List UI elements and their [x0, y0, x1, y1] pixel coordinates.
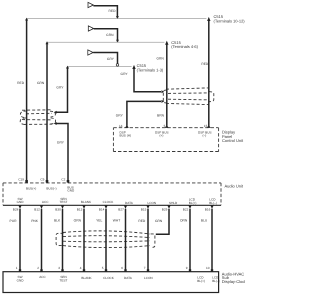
junction arrowhead right end line 2: [165, 41, 168, 45]
svg-text:BRN: BRN: [157, 114, 165, 118]
svg-text:GRY: GRY: [116, 114, 124, 118]
terminal C2 square: [67, 180, 70, 183]
terminal 14 triangle: [125, 125, 129, 128]
svg-text:RED: RED: [138, 219, 146, 223]
node line 1 (C515 terminals 10-12 bus): [27, 18, 207, 20]
wire ORN pin B22: [188, 206, 191, 209]
terminal C19 square: [25, 180, 28, 183]
svg-text:3: 3: [58, 266, 60, 270]
svg-text:6: 6: [121, 266, 123, 270]
svg-text:B29: B29: [162, 207, 168, 211]
svg-text:LCON: LCON: [148, 201, 157, 205]
wire GRY from C515 1-3 into shield SH2: [134, 67, 161, 92]
node marker up-arrow left end line 3: [66, 66, 69, 69]
svg-text:B14: B14: [99, 207, 105, 211]
svg-text:BLU: BLU: [201, 218, 208, 222]
svg-text:GRY: GRY: [57, 141, 65, 145]
svg-text:(Terminals 1-3): (Terminals 1-3): [137, 67, 164, 72]
svg-text:5: 5: [102, 266, 104, 270]
svg-text:B13: B13: [77, 207, 83, 211]
chevron into SH2 upper: [161, 90, 164, 93]
svg-text:BL(+): BL(+): [197, 279, 205, 283]
svg-text:GRN: GRN: [156, 57, 164, 61]
shield cylinder SH3 (lower, around sub-display harness): [56, 231, 155, 248]
svg-text:BLANK: BLANK: [81, 200, 92, 204]
svg-text:GRN: GRN: [155, 219, 163, 223]
svg-text:C19: C19: [18, 178, 24, 182]
svg-text:GRY: GRY: [121, 72, 129, 76]
junction arrowhead onto line 1: [116, 16, 119, 19]
shield cylinder SH1 (upper left, around RED/GRN wires): [20, 110, 55, 125]
svg-text:(Terminals 10-12): (Terminals 10-12): [214, 18, 246, 23]
junction arrowhead onto line 2: [116, 40, 119, 43]
svg-text:ORN: ORN: [74, 218, 82, 222]
chevron into SH1 bottom: [54, 122, 57, 125]
chevron into SH1 top: [54, 111, 57, 114]
wire BLK pin B30: [61, 206, 64, 209]
off-page arrow symbol 3: [88, 50, 93, 55]
svg-text:BUS (H): BUS (H): [120, 134, 132, 138]
wire BRN vertical to terminal 5: [166, 43, 168, 126]
svg-text:9: 9: [186, 266, 188, 270]
svg-text:BUS(–): BUS(–): [46, 186, 56, 190]
wire ORN pin B13: [82, 206, 85, 209]
svg-text:7: 7: [144, 266, 146, 270]
svg-text:C9: C9: [40, 178, 44, 182]
junction ring on line 3: [116, 64, 119, 67]
svg-text:GND: GND: [67, 189, 75, 193]
svg-text:ACC: ACC: [42, 200, 49, 204]
svg-text:GRN: GRN: [37, 81, 45, 85]
svg-text:C2: C2: [61, 178, 65, 182]
audio unit bottom edge (solid): [3, 204, 221, 206]
svg-text:GND: GND: [17, 200, 25, 204]
svg-text:B28: B28: [13, 207, 19, 211]
terminal C9 square: [46, 180, 49, 183]
svg-text:RED: RED: [201, 62, 209, 66]
wire WHT pin B27: [124, 206, 127, 209]
svg-text:B15: B15: [141, 207, 147, 211]
svg-text:15: 15: [204, 124, 208, 128]
terminal 5 triangle: [165, 125, 169, 128]
svg-text:BL(+): BL(+): [189, 201, 197, 205]
svg-text:CLOCK: CLOCK: [103, 200, 115, 204]
node marker up-arrow left end line 2: [46, 41, 49, 44]
svg-text:CLOCK: CLOCK: [103, 276, 115, 280]
wire GRY terminal 14 into shield SH2: [127, 101, 161, 126]
svg-text:BL(–): BL(–): [212, 279, 220, 283]
svg-text:1: 1: [16, 266, 18, 270]
display panel control unit box: [113, 128, 218, 152]
svg-text:(–): (–): [203, 134, 207, 138]
svg-text:4: 4: [80, 266, 82, 270]
shield cylinder SH2 (upper right, around DSP BUS wires): [163, 88, 214, 105]
wire PNK pin B12: [40, 206, 43, 209]
svg-text:BLK: BLK: [54, 218, 61, 222]
svg-text:Display-Clock: Display-Clock: [222, 279, 245, 284]
wire GRY from arrow 3: [93, 53, 117, 64]
svg-text:B30: B30: [55, 207, 61, 211]
sub display terminal squares: [19, 269, 21, 272]
terminal 15 triangle: [207, 125, 211, 128]
node marker up-arrow left end line 1: [25, 18, 28, 21]
node line 3 (C515 terminals 1-3 bus): [68, 66, 132, 68]
audio-HVAC sub display box: [3, 272, 219, 293]
svg-text:BL(–): BL(–): [209, 201, 217, 205]
svg-text:DATA: DATA: [125, 201, 134, 205]
svg-text:GRY: GRY: [107, 57, 115, 61]
junction arrowhead right end line 1: [207, 17, 210, 21]
wire GRN left vertical: [46, 43, 48, 181]
svg-text:5: 5: [164, 124, 166, 128]
svg-text:LCON: LCON: [144, 276, 153, 280]
svg-text:B27: B27: [118, 207, 124, 211]
svg-text:B16: B16: [205, 207, 211, 211]
wire RED pin B15: [146, 206, 149, 209]
svg-text:GRY: GRY: [56, 86, 64, 90]
svg-text:TEST: TEST: [60, 278, 68, 282]
svg-text:TEST: TEST: [60, 200, 68, 204]
svg-text:(Terminals 4-6): (Terminals 4-6): [171, 44, 198, 49]
svg-text:Control Unit: Control Unit: [222, 138, 244, 143]
svg-text:ORN: ORN: [180, 218, 188, 222]
svg-text:(+): (+): [160, 134, 164, 138]
svg-text:GND: GND: [17, 278, 25, 282]
wire RED right vertical to terminal 15: [208, 19, 210, 126]
svg-text:14: 14: [119, 124, 123, 128]
off-page arrow symbol 1: [88, 2, 93, 7]
svg-text:BUS(+): BUS(+): [26, 186, 36, 190]
svg-text:GRN: GRN: [106, 33, 114, 37]
svg-text:DATA: DATA: [124, 276, 133, 280]
svg-text:B22: B22: [183, 207, 189, 211]
svg-text:PUR: PUR: [10, 219, 18, 223]
wire RED from arrow 1: [93, 6, 117, 18]
wire GRY jog through shield SH1: [56, 67, 67, 112]
wire RED left vertical: [26, 19, 28, 181]
svg-text:RED: RED: [17, 81, 25, 85]
wire PUR pin B28: [18, 206, 21, 209]
svg-text:Audio Unit: Audio Unit: [225, 184, 244, 189]
svg-text:ACC: ACC: [39, 275, 46, 279]
svg-text:SHLD: SHLD: [169, 201, 178, 205]
svg-text:2: 2: [37, 266, 39, 270]
svg-text:PNK: PNK: [31, 219, 39, 223]
audio unit box: [3, 183, 221, 205]
node line 2 (C515 terminals 4-6 bus): [47, 41, 164, 43]
chevron into SH2 lower: [161, 100, 164, 103]
off-page arrow symbol 2: [88, 26, 93, 31]
svg-text:10: 10: [206, 266, 210, 270]
wire GRN shield pin B29: [167, 206, 170, 209]
svg-text:BLANK: BLANK: [81, 276, 92, 280]
svg-text:B12: B12: [34, 207, 40, 211]
wire BLU pin B16: [210, 206, 213, 209]
svg-text:RED: RED: [109, 9, 117, 13]
svg-text:YEL: YEL: [96, 218, 102, 222]
wire YEL pin B14: [104, 206, 107, 209]
wire GRN from arrow 2: [94, 29, 118, 42]
junction arrowhead right end line 3: [132, 65, 135, 69]
svg-text:WHT: WHT: [113, 218, 121, 222]
